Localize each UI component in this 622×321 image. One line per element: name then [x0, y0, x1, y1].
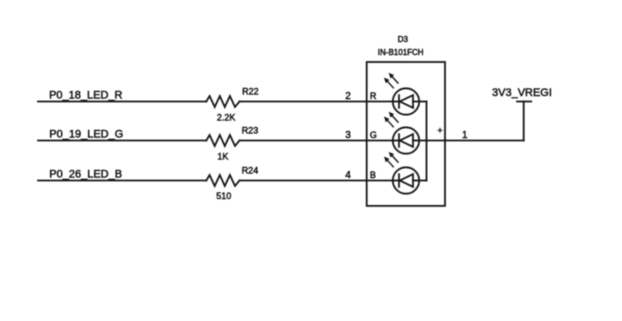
anode bus wire inside D3: [426, 102, 428, 181]
resistor R23: [206, 135, 239, 146]
svg-text:R22: R22: [242, 86, 259, 96]
wire net P0_19_LED_G to resistor R23: [38, 140, 206, 142]
wire pin 1 to power: [427, 140, 524, 142]
svg-text:R23: R23: [242, 126, 259, 136]
svg-text:R24: R24: [242, 166, 259, 176]
svg-text:R: R: [370, 91, 377, 101]
LED blue element of D3: [385, 153, 427, 194]
svg-text:3: 3: [345, 130, 351, 141]
svg-text:P0_26_LED_B: P0_26_LED_B: [49, 168, 122, 180]
svg-text:2: 2: [345, 91, 351, 102]
wire R23 to pin 3 of D3: [240, 140, 393, 142]
wire R22 to pin 2 of D3: [240, 101, 393, 103]
svg-text:P0_19_LED_G: P0_19_LED_G: [49, 128, 123, 140]
wire net P0_26_LED_B to resistor R24: [38, 180, 206, 182]
power stem 3V3_VREGI: [523, 102, 525, 141]
LED red element of D3: [385, 74, 427, 115]
svg-text:IN-B101FCH: IN-B101FCH: [378, 48, 424, 57]
LED green element of D3: [385, 113, 427, 154]
svg-text:4: 4: [345, 170, 351, 181]
power bar 3V3_VREGI: [517, 101, 531, 103]
svg-text:510: 510: [216, 191, 231, 201]
wire net P0_18_LED_R to resistor R22: [38, 101, 206, 103]
svg-text:1K: 1K: [217, 151, 228, 161]
resistor R22: [206, 96, 239, 107]
package outline D3: [367, 62, 445, 206]
resistor R24: [206, 175, 239, 186]
svg-text:1: 1: [462, 130, 468, 141]
svg-text:B: B: [370, 170, 376, 180]
svg-text:2.2K: 2.2K: [217, 112, 236, 122]
svg-text:3V3_VREGI: 3V3_VREGI: [492, 87, 552, 99]
svg-text:+: +: [437, 126, 442, 136]
svg-text:P0_18_LED_R: P0_18_LED_R: [49, 89, 122, 101]
svg-text:G: G: [370, 130, 377, 140]
wire R24 to pin 4 of D3: [240, 180, 393, 182]
svg-text:D3: D3: [398, 35, 409, 44]
